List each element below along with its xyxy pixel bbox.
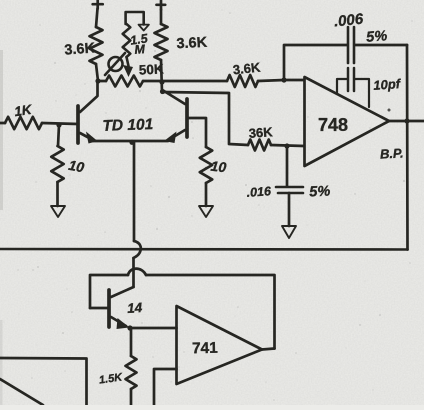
svg-text:10: 10	[67, 157, 85, 175]
svg-text:.016: .016	[246, 184, 272, 200]
svg-text:1K: 1K	[13, 102, 33, 119]
svg-text:3.6K: 3.6K	[176, 35, 208, 53]
svg-text:B.P.: B.P.	[380, 145, 404, 161]
svg-text:3.6K: 3.6K	[232, 60, 261, 78]
svg-text:5%: 5%	[309, 183, 331, 200]
svg-text:36K: 36K	[248, 124, 273, 141]
svg-text:10pf: 10pf	[373, 76, 402, 93]
svg-text:741: 741	[192, 340, 219, 357]
svg-text:5%: 5%	[366, 28, 388, 45]
svg-text:748: 748	[318, 115, 348, 135]
svg-text:10: 10	[210, 158, 227, 176]
svg-text:M: M	[134, 42, 146, 57]
svg-text:14: 14	[127, 300, 144, 316]
svg-text:3.6K: 3.6K	[64, 40, 96, 58]
svg-text:.006: .006	[333, 10, 364, 30]
svg-text:TD 101: TD 101	[102, 116, 153, 135]
svg-text:50K: 50K	[139, 61, 165, 77]
